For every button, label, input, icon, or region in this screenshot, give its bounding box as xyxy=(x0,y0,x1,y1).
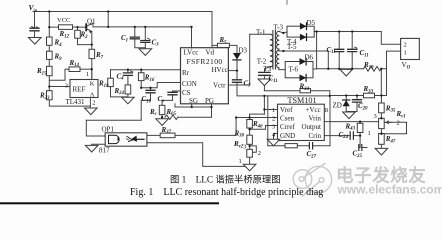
label R05 xyxy=(166,108,177,117)
svg-text:+Vcc: +Vcc xyxy=(306,106,321,114)
wire plus rail to connector xyxy=(314,32,400,45)
wire rail2 LVcc xyxy=(93,27,192,48)
ground TSM GND pin xyxy=(267,139,280,146)
wire CS stub xyxy=(173,91,181,92)
resistor R05 zigzag xyxy=(165,115,178,119)
label R4 xyxy=(54,39,63,48)
wire R9-R15 xyxy=(48,59,50,66)
wire SG PG row xyxy=(175,104,212,107)
label R19 xyxy=(363,61,374,70)
label R33 xyxy=(363,85,374,94)
wire VCC stub xyxy=(49,26,58,28)
svg-text:R16: R16 xyxy=(144,74,155,83)
transformer T1 secondary upper xyxy=(277,31,279,49)
label R16 xyxy=(144,74,155,83)
label R37 xyxy=(161,126,172,135)
label C4 xyxy=(117,72,125,81)
svg-text:Crref: Crref xyxy=(280,123,295,131)
svg-text:VO: VO xyxy=(402,61,411,70)
resistor R15 xyxy=(47,66,53,75)
label T-4 xyxy=(287,38,297,46)
wire R47 gnd stem xyxy=(380,144,382,148)
wire output return rail xyxy=(317,51,401,95)
wire rail1-rail2 link xyxy=(107,12,109,27)
label C3 xyxy=(152,38,160,47)
wire HVcc node to C7 xyxy=(236,71,238,80)
svg-text:Vrin: Vrin xyxy=(309,115,322,123)
label TL431 xyxy=(66,98,86,106)
wire Vrin row xyxy=(324,121,378,123)
wire R7 to R14 node xyxy=(91,59,93,80)
pin Vctr xyxy=(213,82,226,90)
svg-text:K: K xyxy=(90,81,95,88)
svg-text:CS: CS xyxy=(182,89,191,97)
wire OP1 emitter loop xyxy=(147,143,250,167)
label T-2 xyxy=(257,57,267,65)
potentiometer Rv1 xyxy=(379,118,392,128)
svg-text:www.elecfans.com: www.elecfans.com xyxy=(337,182,442,196)
wire Rv1-R47 xyxy=(380,129,382,134)
svg-text:CON: CON xyxy=(182,80,197,88)
svg-text:C24: C24 xyxy=(339,131,349,140)
diode pair D5 block xyxy=(287,23,314,41)
optocoupler OP1 box xyxy=(105,133,147,146)
caption chinese xyxy=(170,174,281,186)
svg-text:SG: SG xyxy=(189,97,198,105)
label T-3 xyxy=(274,24,284,32)
wire lower coil to D6 block xyxy=(279,68,285,70)
svg-text:R12: R12 xyxy=(59,30,70,39)
capacitor C25 xyxy=(359,145,362,151)
svg-text:D5: D5 xyxy=(307,19,316,27)
resistor R4 xyxy=(47,37,53,45)
optocoupler OP1 LED xyxy=(109,135,120,143)
node VCC label xyxy=(57,17,70,24)
wire R2 bottom to emitter node xyxy=(78,38,92,44)
svg-text:PG: PG xyxy=(205,97,214,105)
node Vin label xyxy=(29,3,38,12)
resistor R5 top right xyxy=(217,43,229,47)
wire Rv2 gnd stem xyxy=(249,157,251,164)
pin HVcc xyxy=(212,66,228,74)
svg-text:R15: R15 xyxy=(36,67,47,76)
label R34 xyxy=(299,83,310,92)
svg-text:1: 1 xyxy=(272,107,275,114)
resistor Rc xyxy=(159,105,165,114)
wire R43 top xyxy=(359,122,361,124)
label D5 xyxy=(307,19,316,27)
transformer T1 primary winding xyxy=(270,34,273,67)
pin LVcc xyxy=(184,49,199,57)
label FSFR2100 xyxy=(187,57,223,66)
wire R37 left xyxy=(147,134,160,136)
wire R30-Rv2 node xyxy=(249,144,251,149)
label D3 xyxy=(239,47,248,55)
wire R43 bottom xyxy=(359,133,361,136)
label R47 xyxy=(385,135,396,144)
potentiometer Rv2 xyxy=(247,149,253,157)
resistor R9 xyxy=(47,51,53,59)
label R5 xyxy=(219,36,228,45)
svg-text:Output: Output xyxy=(302,123,322,131)
ground below ZD xyxy=(343,112,356,119)
capacitor C24 xyxy=(350,132,353,139)
svg-text:T3: T3 xyxy=(264,65,272,73)
wire TSM outer box right edge xyxy=(329,96,331,146)
resistor R34 xyxy=(300,89,311,93)
num 1 Rv1 xyxy=(368,130,371,137)
svg-text:Csen: Csen xyxy=(280,115,295,123)
svg-text:R46: R46 xyxy=(252,120,263,129)
svg-text:R33: R33 xyxy=(363,85,374,94)
svg-text:C3: C3 xyxy=(152,38,160,47)
svg-text:C11: C11 xyxy=(360,49,369,58)
wire TSM gnd pin xyxy=(274,134,278,140)
wire primary top xyxy=(250,33,271,35)
svg-text:Vref: Vref xyxy=(280,106,293,114)
pin 1 TL431 xyxy=(86,71,89,78)
pin 1 connector xyxy=(404,49,407,56)
num 1 Rv2 xyxy=(239,158,242,165)
wire pin1 Vref xyxy=(264,109,277,111)
wire R15-R23 node xyxy=(48,80,50,90)
wire C3 bottom xyxy=(144,43,146,49)
wire C7 branch down xyxy=(263,96,265,114)
label 817 xyxy=(99,146,110,154)
svg-text:R4: R4 xyxy=(54,39,63,48)
wire Vctr pin to primary rail xyxy=(228,34,249,85)
caption english xyxy=(130,187,323,198)
wire C20 drop xyxy=(356,96,358,112)
svg-text:HVcc: HVcc xyxy=(212,66,228,74)
num 2 TSM xyxy=(272,115,275,122)
svg-text:C11: C11 xyxy=(269,75,278,84)
wire secondary top to D5 block xyxy=(279,31,287,33)
label Rv2 xyxy=(233,140,244,149)
zener ZD xyxy=(343,100,350,106)
wire Rc bottom node xyxy=(161,115,163,119)
wire TL431 pin3 xyxy=(49,86,70,88)
resistor R16 xyxy=(138,73,144,81)
svg-text:T-5: T-5 xyxy=(287,43,297,51)
svg-text:8: 8 xyxy=(325,107,328,114)
wire R14 right lead xyxy=(80,68,92,70)
capacitor C4 electrolytic xyxy=(123,71,133,76)
capacitor C1 xyxy=(130,37,139,39)
pin CON xyxy=(182,80,197,88)
wire pin3 jog xyxy=(250,126,278,130)
label C1 xyxy=(121,34,128,43)
label Cs xyxy=(158,95,165,104)
svg-text:2: 2 xyxy=(272,115,275,122)
resistor R18 xyxy=(108,78,114,86)
capacitor C3 xyxy=(141,38,150,42)
svg-text:R34: R34 xyxy=(299,83,310,92)
svg-text:Rc: Rc xyxy=(149,108,158,117)
label R15 xyxy=(36,67,47,76)
svg-text:2: 2 xyxy=(397,120,400,127)
svg-text:T-3: T-3 xyxy=(274,24,284,32)
svg-text:T-1: T-1 xyxy=(256,29,266,37)
svg-text:1: 1 xyxy=(404,49,407,56)
svg-text:3: 3 xyxy=(243,144,246,151)
svg-text:D6: D6 xyxy=(305,53,314,61)
label Vo xyxy=(402,61,411,70)
ground below Rc xyxy=(156,119,169,126)
label ZD xyxy=(333,101,342,109)
transformer T1 core xyxy=(273,31,276,70)
pin A TL431 xyxy=(90,92,95,99)
pin Vd xyxy=(206,49,215,57)
svg-text:R24: R24 xyxy=(114,87,125,96)
wire R16 leads xyxy=(140,70,142,88)
connector J1 output xyxy=(401,38,420,59)
wire T-3 top stub xyxy=(286,0,288,4)
svg-text:TL431: TL431 xyxy=(66,98,86,106)
resistor R33 xyxy=(364,93,375,98)
svg-text:ZD: ZD xyxy=(333,101,342,109)
pin Vrin xyxy=(309,115,322,123)
resistor R14 xyxy=(69,67,80,72)
watermark logo circles xyxy=(293,164,331,197)
resistor R7 xyxy=(89,49,95,58)
wire Q1 emitter down R7 xyxy=(91,32,93,50)
label R24 xyxy=(114,87,125,96)
label T3 xyxy=(264,65,272,73)
svg-text:Vctr: Vctr xyxy=(213,82,226,90)
pin +Vcc xyxy=(306,106,321,114)
wire resonant cap bottom / R34 rail xyxy=(264,75,329,96)
label R46 xyxy=(252,120,263,129)
wire D3 to HVcc node xyxy=(236,60,238,71)
pin Csen xyxy=(280,115,295,123)
num 3 TSM xyxy=(272,124,275,131)
label C11 out b xyxy=(360,49,369,58)
capacitor C11 output b xyxy=(348,47,357,52)
ground left of OP1 xyxy=(85,145,98,152)
resistor R46 xyxy=(247,120,253,129)
ground below R24 xyxy=(122,97,135,104)
wire R24 bottom xyxy=(127,94,129,97)
svg-text:R5: R5 xyxy=(219,36,228,45)
label C20 xyxy=(358,102,368,111)
wire R46-R30 node xyxy=(249,128,251,135)
svg-text:R35: R35 xyxy=(385,104,396,113)
svg-text:2: 2 xyxy=(404,42,407,49)
resistor in feedback loop xyxy=(285,144,297,148)
pin CS xyxy=(182,89,191,97)
label TSM101 xyxy=(288,96,317,105)
ground below resonant cap xyxy=(258,79,271,86)
wire HVcc pin xyxy=(228,70,237,72)
wire C11a drop xyxy=(338,32,340,69)
svg-text:C1: C1 xyxy=(121,34,128,43)
svg-text:C27: C27 xyxy=(307,150,317,159)
capacitor C27 xyxy=(309,143,312,149)
label R9 xyxy=(54,53,63,62)
bottom rule bar xyxy=(0,202,219,204)
wire pin2 Csen row xyxy=(236,117,277,119)
capacitor C10 xyxy=(146,90,155,93)
wire D6 out to plus rail xyxy=(313,32,317,70)
pin Rr xyxy=(182,69,190,77)
wire C3 top xyxy=(144,27,146,41)
svg-text:1: 1 xyxy=(368,130,371,137)
svg-text:D3: D3 xyxy=(239,47,248,55)
label C11 out a xyxy=(327,46,336,55)
pin PG xyxy=(205,97,214,105)
label T-5 xyxy=(287,43,297,51)
wire OP1 cathode gnd xyxy=(92,143,106,146)
svg-text:R47: R47 xyxy=(385,135,396,144)
svg-text:2: 2 xyxy=(92,100,95,107)
pin 3 TL431 xyxy=(65,83,68,90)
wire Rv1 wiper loop xyxy=(385,122,407,134)
svg-text:3: 3 xyxy=(272,124,275,131)
svg-text:C4: C4 xyxy=(117,72,125,81)
num 3 Rv1 xyxy=(374,113,377,120)
label C11 resonant xyxy=(269,75,278,84)
wire left divider chain xyxy=(48,12,50,38)
wire R33 row xyxy=(330,95,387,97)
svg-text:R7: R7 xyxy=(95,51,104,60)
watermark text elecfans xyxy=(336,166,442,197)
label C7 xyxy=(244,80,252,89)
num 2 Rv2 xyxy=(258,150,261,157)
svg-text:GND: GND xyxy=(280,132,295,140)
resistor R12 xyxy=(59,25,73,30)
label R43 xyxy=(345,122,356,131)
wire R18 leads xyxy=(111,70,128,97)
label R14 xyxy=(69,59,80,68)
capacitor C7 xyxy=(233,80,242,83)
resistor R47 xyxy=(379,134,385,145)
num 4 TSM xyxy=(272,132,276,139)
svg-text:R05: R05 xyxy=(166,108,177,117)
num 8 TSM xyxy=(325,107,328,114)
svg-text:3: 3 xyxy=(374,113,377,120)
resistor R30 xyxy=(247,135,253,144)
diode pair D6 block xyxy=(285,58,313,81)
capacitor Cin electrolytic xyxy=(30,27,39,38)
wire Crin C24 row xyxy=(324,135,360,137)
resistor R2 xyxy=(75,30,81,38)
resistor R24 xyxy=(125,85,131,94)
ground below Rv2 xyxy=(243,164,256,171)
svg-text:FSFR2100: FSFR2100 xyxy=(187,57,223,66)
wire C4 leads xyxy=(127,70,129,85)
pin Vref xyxy=(280,106,293,114)
resistor R35 xyxy=(379,103,385,113)
label T-6 xyxy=(289,65,299,73)
wire TSM outer bottom edge xyxy=(268,145,330,147)
label Rc xyxy=(149,108,158,117)
wire R46 top row xyxy=(250,113,265,115)
label REF xyxy=(73,86,86,94)
wire ZD bottom xyxy=(346,106,357,111)
wire TSM outer box left edge xyxy=(267,96,269,146)
label OP1 xyxy=(102,126,115,134)
label Rv1 xyxy=(396,110,406,119)
ground below R47 xyxy=(375,148,388,155)
ground below TL431 xyxy=(85,108,98,115)
svg-text:REF: REF xyxy=(73,86,86,94)
resistor R43 xyxy=(357,123,363,132)
transistor Q1 xyxy=(86,23,93,33)
wire C25 stub xyxy=(359,136,367,148)
label T-1 xyxy=(256,29,266,37)
label C10 xyxy=(142,95,152,104)
IC U2 REF TL431 box xyxy=(70,70,98,108)
label R12 xyxy=(59,30,70,39)
capacitor C11 resonant xyxy=(259,72,270,75)
pin Crin xyxy=(309,132,322,140)
pin 2 TL431 xyxy=(92,100,95,107)
capacitor C20 xyxy=(353,100,362,102)
wire R23 bottom to TL431 anode xyxy=(49,100,90,106)
wire Vin top rail to Vd xyxy=(33,12,212,49)
label R18 xyxy=(98,80,109,89)
ground below output caps xyxy=(340,69,353,76)
wire R2 top xyxy=(77,27,79,30)
top edge tick xyxy=(286,0,288,4)
wire Q1 collector to rail2 xyxy=(92,23,94,27)
svg-text:R43: R43 xyxy=(345,122,356,131)
ground below Cin xyxy=(29,38,42,45)
svg-text:A: A xyxy=(90,92,95,99)
svg-text:Cs: Cs xyxy=(158,95,165,104)
wire Cs bottom xyxy=(162,95,172,105)
svg-text:R30: R30 xyxy=(234,129,245,138)
pin 2 connector xyxy=(404,42,407,49)
svg-text:2: 2 xyxy=(258,150,261,157)
svg-text:R2: R2 xyxy=(80,31,89,40)
label R35 xyxy=(385,104,396,113)
pin Crref xyxy=(280,123,295,131)
resistor R23 xyxy=(47,91,53,100)
label R30 xyxy=(234,129,245,138)
svg-text:C25: C25 xyxy=(353,150,363,159)
label C27 xyxy=(307,150,317,159)
svg-text:R19: R19 xyxy=(363,61,374,70)
label Q1 xyxy=(87,18,96,26)
label D6 xyxy=(305,53,314,61)
wire Vin drop xyxy=(34,12,36,28)
svg-text:Vd: Vd xyxy=(206,49,215,57)
wire R5 to D3 top xyxy=(229,45,237,53)
svg-text:R37: R37 xyxy=(161,126,172,135)
label R2 xyxy=(80,31,89,40)
svg-text:Vin: Vin xyxy=(29,3,38,12)
num 3 Rv2 xyxy=(243,144,246,151)
svg-text:LVcc: LVcc xyxy=(184,49,199,57)
capacitor Cs xyxy=(168,92,177,95)
wire R12 to Q1 base xyxy=(73,26,87,28)
svg-text:VCC: VCC xyxy=(57,17,70,24)
pin SG xyxy=(189,97,198,105)
wire ZD drop xyxy=(345,96,347,101)
label C25 xyxy=(353,150,363,159)
wire C10 top xyxy=(150,88,152,100)
IC U1 FSFR2100 box xyxy=(181,48,229,104)
IC U3 TSM101 inner box xyxy=(278,104,325,140)
pin GND xyxy=(280,132,295,140)
svg-text:Fig. 1 LLC resonant half-bridg: Fig. 1 LLC resonant half-bridge principl… xyxy=(130,187,323,198)
svg-text:817: 817 xyxy=(99,146,110,154)
wire R37 to Csen xyxy=(175,118,236,136)
wire center tap xyxy=(279,49,329,69)
wire C10 to OP1 feed xyxy=(86,100,150,120)
